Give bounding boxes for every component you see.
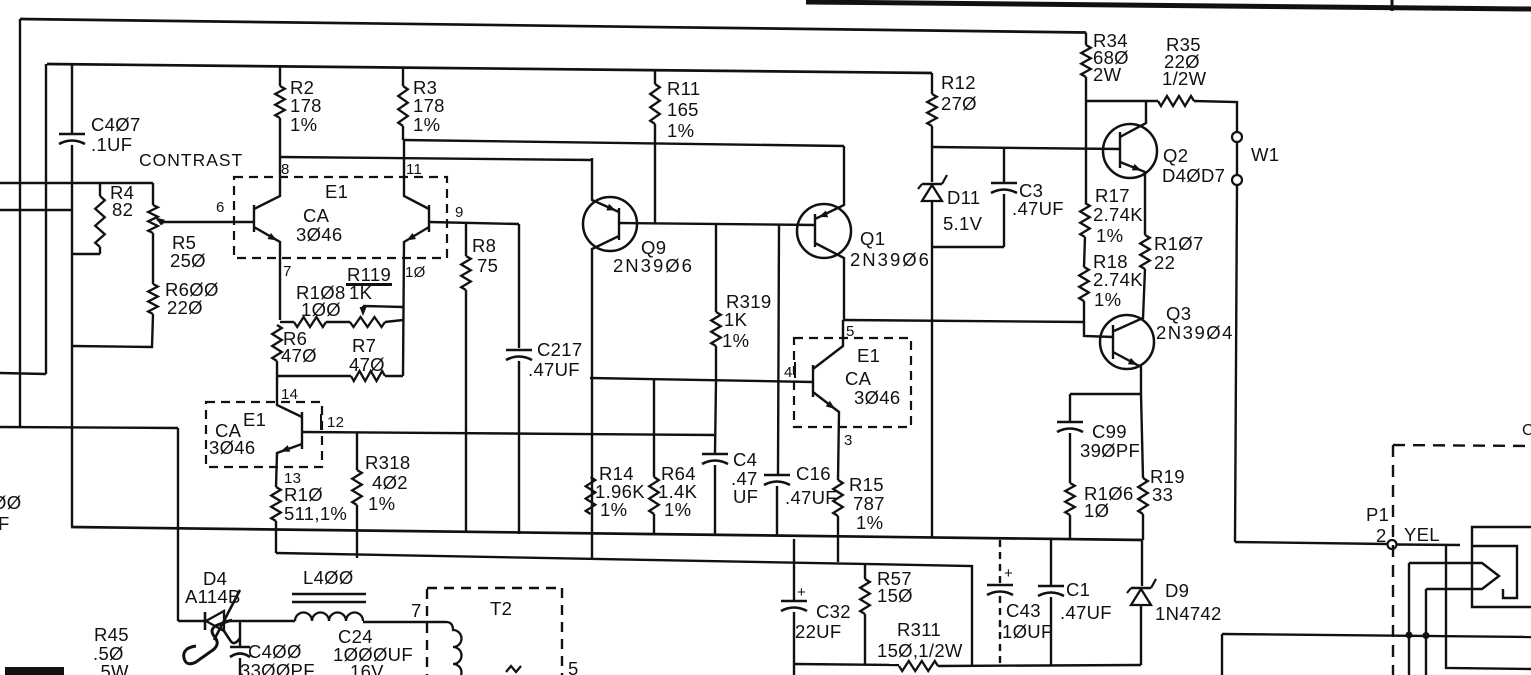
svg-text:27Ø: 27Ø [941,93,977,114]
label C1 [1060,579,1112,623]
wire top title-block border [806,2,1531,9]
label pin 5 [846,323,855,340]
svg-text:D4ØD7: D4ØD7 [1162,165,1225,186]
capacitor C43 [987,540,1013,665]
svg-text:1Ø: 1Ø [1084,500,1109,521]
diode D4 [178,611,295,631]
svg-text:C4: C4 [733,449,757,470]
svg-text:33: 33 [1152,484,1173,505]
resistor R14 [586,477,596,514]
capacitor C99 [1057,394,1141,483]
label pin 11 [406,161,422,178]
svg-text:D11: D11 [947,187,980,208]
capacitor C16 [764,224,790,535]
label T2 pin 7 [411,600,422,621]
resistor R319 [711,223,721,381]
svg-text:33ØØPF: 33ØØPF [240,660,315,675]
wire lower-left stub [0,209,71,211]
resistor R7 [277,371,403,381]
transformer T2 dashed box [427,588,562,675]
svg-text:511,1%: 511,1% [284,503,347,524]
svg-text:1%: 1% [1096,225,1123,246]
svg-text:R1Ø: R1Ø [284,484,323,505]
svg-text:1%: 1% [290,114,317,135]
svg-text:1K: 1K [724,309,748,330]
svg-text:D9: D9 [1165,580,1189,601]
label C3 [1012,180,1064,219]
svg-text:R11: R11 [667,78,700,99]
resistor R35 [1086,96,1237,132]
trimmer R119 body [350,317,403,327]
resistor R106 [1065,483,1075,539]
junction dot [1406,632,1412,638]
svg-text:C4ØØ: C4ØØ [248,641,302,662]
wire grid line [1222,634,1531,675]
svg-text:5.1V: 5.1V [943,213,983,234]
svg-text:.1UF: .1UF [91,134,132,155]
svg-text:E1: E1 [325,181,348,202]
svg-text:Q2: Q2 [1163,145,1188,166]
resistor R11 [650,70,660,223]
svg-text:T2: T2 [490,598,512,619]
svg-text:1%: 1% [667,120,694,141]
IC E1 dashed box (pin 3-4-5) [794,338,911,427]
junction dot [1423,633,1429,639]
resistor R12 [927,73,937,147]
label C16 [785,463,837,508]
svg-text:1%: 1% [1094,289,1121,310]
label C99 [1080,421,1140,461]
resistor R64 [649,379,659,534]
wire left-edge stub to inner rail [0,373,46,374]
resistor R600 [72,284,158,347]
svg-text:9: 9 [455,204,464,221]
label C4 [731,449,758,507]
svg-text:W1: W1 [1251,144,1279,165]
label E1 mid [845,345,900,408]
svg-text:22: 22 [1154,252,1175,273]
wire ground bus A [71,527,1143,540]
wire gun feed 1 [1409,563,1472,675]
svg-text:16V: 16V [350,661,384,675]
CRT gun cathode arrow [1472,563,1499,589]
label R2 [290,77,322,135]
connector P1 dashed boundary [1393,445,1531,675]
label R17 [1093,185,1143,246]
svg-text:4Ø2: 4Ø2 [372,472,408,493]
label R6 [281,328,317,366]
svg-text:.47UF: .47UF [528,359,580,380]
label R18 [1093,251,1143,310]
label R600 [165,279,219,318]
label T2 [490,598,512,619]
partial label left [0,492,21,534]
label C32 [795,601,851,642]
transistor E1a pins 6-7-8 [160,157,280,320]
svg-text:15Ø,1/2W: 15Ø,1/2W [877,640,963,661]
svg-text:UF: UF [733,486,758,507]
svg-text:1/2W: 1/2W [1162,68,1207,89]
capacitor C407 [59,64,85,527]
label R7 [349,335,385,375]
label R3 [413,77,445,135]
label Q3 [1156,303,1234,343]
svg-text:2N39Ø6: 2N39Ø6 [850,249,931,270]
wire vertical to D4 line [177,428,179,621]
label R45 [93,624,129,675]
svg-text:R12: R12 [941,72,976,93]
label R15 [849,474,885,533]
label P1 [1366,504,1389,546]
svg-text:C4Ø7: C4Ø7 [91,114,141,135]
label R4 [110,182,134,220]
svg-text:787: 787 [853,493,885,514]
partial label top-right [1522,422,1531,439]
svg-text:R311: R311 [897,619,941,640]
label D9 [1155,580,1222,624]
svg-text:CA: CA [845,368,872,389]
svg-text:3: 3 [844,432,853,449]
svg-text:75: 75 [477,255,498,276]
label C217 [528,339,582,380]
label pin 4 [784,362,795,381]
svg-text:R15: R15 [849,474,884,495]
svg-text:C1: C1 [1066,579,1090,600]
wire v4 drop [1446,545,1531,669]
label pin 12 [321,414,344,431]
wire bus2 inner rail [47,64,932,73]
capacitor C3 [932,148,1017,247]
wire YEL continues [1397,543,1460,546]
svg-text:E1: E1 [857,345,880,366]
svg-text:15Ø: 15Ø [877,585,913,606]
svg-text:C217: C217 [537,339,582,360]
connector pin P1-2 [1388,540,1397,549]
svg-text:F: F [0,513,10,534]
wire bus B [276,553,972,665]
IC E1 dashed box (pin 12-13-14) [206,402,322,467]
svg-text:C43: C43 [1006,600,1041,621]
svg-text:1%: 1% [413,114,440,135]
label CONTRAST [139,150,243,170]
resistor R2 [275,67,285,157]
resistor R4 [72,183,105,254]
inductor L400 [292,594,366,621]
resistor R19 [1138,394,1148,540]
resistor R17 [1080,203,1090,267]
svg-text:E1: E1 [243,409,266,430]
svg-text:39ØPF: 39ØPF [1080,440,1140,461]
transistor E1d pins 12-13-14 [276,376,714,487]
resistor R5 contrast pot [148,183,158,284]
wire gun feed 2 [1426,589,1472,675]
svg-text:.47UF: .47UF [785,487,837,508]
svg-text:5: 5 [568,658,579,675]
svg-text:5: 5 [846,323,855,340]
svg-text:1ØØ: 1ØØ [301,299,341,320]
svg-text:165: 165 [667,99,699,120]
svg-text:1N4742: 1N4742 [1155,603,1222,624]
label Q2 [1162,145,1225,186]
svg-text:7: 7 [411,600,422,621]
label Q1 [850,228,931,270]
svg-text:Q3: Q3 [1166,303,1191,324]
svg-text:ØØ: ØØ [0,492,21,513]
label R106 [1084,483,1134,521]
svg-text:P1: P1 [1366,504,1389,525]
svg-text:1%: 1% [368,493,395,514]
resistor R8 [461,223,471,533]
label R10 [284,484,347,524]
svg-text:8: 8 [281,161,290,178]
wire YEL line [1235,542,1387,544]
svg-text:2: 2 [1376,525,1387,546]
svg-text:YEL: YEL [1404,524,1440,545]
wire D4 output line [363,621,446,623]
label T2 pin 5 [568,658,579,675]
wire pin8 net [280,157,592,160]
svg-text:3Ø46: 3Ø46 [854,387,900,408]
handwritten mark on D4 [184,590,240,664]
svg-text:R1Ø7: R1Ø7 [1154,233,1204,254]
zener D9 [1127,540,1156,665]
label R107 [1154,233,1204,273]
transistor E1b pins 9-10-11 [403,140,519,376]
svg-text:R8: R8 [472,235,496,256]
label R19 [1150,466,1185,505]
svg-text:12: 12 [327,414,344,431]
resistor R10 [271,487,281,553]
svg-text:82: 82 [112,199,133,220]
svg-text:+: + [1004,565,1013,582]
svg-text:Q1: Q1 [860,228,885,249]
label R64 [658,463,698,520]
label D11 [943,187,983,234]
label R108 [296,282,346,320]
wire left frame vertical [19,19,21,427]
svg-text:R17: R17 [1095,185,1130,206]
svg-text:2.74K: 2.74K [1093,269,1143,290]
resistor R34 [1081,33,1091,204]
label C407 [91,114,141,155]
capacitor C4 [702,381,728,535]
svg-text:2W: 2W [1093,64,1122,85]
svg-text:7: 7 [283,263,292,280]
svg-text:1%: 1% [600,499,627,520]
svg-text:C: C [1522,422,1531,439]
svg-text:C99: C99 [1092,421,1127,442]
wire bus1 top rail from top-left corner [20,19,1086,33]
pot wiper arrow R5 [156,218,165,226]
label R311 [877,619,963,661]
svg-text:CONTRAST: CONTRAST [139,150,243,170]
label R5 [170,232,206,271]
squiggle inside T2 [506,666,521,672]
CRT gun inner shape [1472,546,1517,598]
resistor R107 [1114,235,1150,331]
svg-text:R318: R318 [365,452,410,473]
capacitor C400 [230,621,250,675]
jumper W1 [1232,132,1242,542]
transformer T2 winding [446,622,462,675]
svg-text:14: 14 [281,386,298,403]
svg-text:6: 6 [216,199,225,216]
wire Q1 collector line [844,320,1084,322]
wire bottom bus [794,664,1141,666]
resistor R108 [280,317,350,327]
label pin 3 [844,432,853,449]
label R12 [941,72,977,114]
resistor R318 [352,433,362,558]
label pin 10 [405,264,426,281]
wire title-block divider tick [1391,0,1394,11]
label pin 8 [281,161,290,178]
svg-text:.47UF: .47UF [1060,602,1112,623]
wire inner-left vertical [45,64,47,374]
svg-text:1ØUF: 1ØUF [1002,621,1053,642]
transistor Q1 [797,146,851,320]
label pin 7 [283,263,292,280]
transistor E1c pins 3-4-5 [590,320,843,480]
resistor R18 [1079,267,1113,337]
svg-text:R7: R7 [352,335,376,356]
capacitor C32 [781,539,807,675]
svg-text:178: 178 [290,95,322,116]
resistor R6 [272,325,282,376]
CRT gun outer box [1472,527,1531,607]
resistor R57 [860,563,870,664]
transistor Q9 [583,158,815,560]
svg-text:47Ø: 47Ø [349,354,385,375]
label R14 [595,463,645,520]
label D4 [185,568,241,607]
label C400 [240,641,315,675]
label E1 upper [296,181,348,245]
label R119 [346,264,392,303]
svg-text:1Ø: 1Ø [405,264,426,281]
svg-text:2N39Ø6: 2N39Ø6 [613,255,694,276]
label R8 [472,235,498,276]
label pin 13 [284,470,301,487]
svg-text:+: + [797,584,806,601]
svg-text:2.74K: 2.74K [1093,204,1143,225]
wire bus3 horizontal [0,427,178,428]
label YEL [1404,524,1440,545]
zener D11 [918,147,947,538]
label R34 [1093,30,1129,85]
transistor Q3 [1100,315,1154,394]
transistor Q2 [1103,101,1157,235]
wire bus2b R3-bottom rail [403,140,844,146]
label pin 6 [216,199,225,216]
svg-text:4: 4 [784,364,793,381]
svg-text:C16: C16 [796,463,831,484]
resistor R15 [833,480,843,562]
svg-text:1%: 1% [664,499,691,520]
black element bottom-left [5,667,64,675]
IC E1 dashed box (upper pair) [234,177,447,258]
svg-text:1K: 1K [349,282,373,303]
label R11 [667,78,700,141]
trimmer R119 wiper [360,306,404,316]
svg-text:.5W: .5W [95,661,129,675]
svg-text:1%: 1% [856,512,883,533]
capacitor C1 [1038,540,1064,665]
svg-text:2N39Ø4: 2N39Ø4 [1156,322,1234,343]
wire D11 node line [932,147,1120,149]
svg-text:47Ø: 47Ø [281,345,317,366]
svg-text:.47UF: .47UF [1012,198,1064,219]
svg-text:178: 178 [413,95,445,116]
svg-text:22Ø: 22Ø [167,297,203,318]
label R318 [365,452,410,514]
svg-text:25Ø: 25Ø [170,250,206,271]
svg-text:L4ØØ: L4ØØ [303,567,354,588]
svg-text:CA: CA [303,205,330,226]
capacitor C217 [506,224,532,534]
resistor R311 inline [899,661,938,671]
svg-text:22UF: 22UF [795,621,841,642]
svg-text:R45: R45 [94,624,129,645]
label R57 [877,568,913,606]
label Q9 [613,237,694,276]
label pin 9 [455,204,464,221]
label C43 [1002,600,1053,642]
svg-text:1%: 1% [722,330,749,351]
wire contrast feed stub [0,182,153,184]
resistor R3 [398,68,408,140]
label L400 [303,567,354,588]
svg-text:3Ø46: 3Ø46 [209,437,255,458]
label C24 [333,626,413,675]
svg-text:3Ø46: 3Ø46 [296,224,342,245]
label R35 [1162,34,1207,89]
svg-text:C32: C32 [816,601,851,622]
label R319 [722,291,771,351]
label W1 [1251,144,1279,165]
label pin 14 [281,386,298,403]
label E1 lower [209,409,266,458]
svg-text:11: 11 [406,161,422,178]
